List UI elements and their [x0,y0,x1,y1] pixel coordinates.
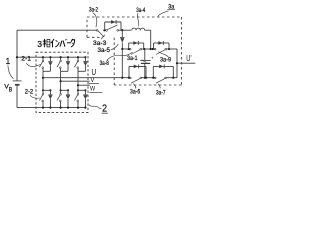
svg-text:3a-8: 3a-8 [100,60,110,67]
label 3a-9 with leader [158,52,171,64]
switch 3a-2 with bypass diode [105,20,121,31]
wire: phase leg U [42,71,44,90]
diode 3a-5 (rail to mid bus) [120,29,125,49]
svg-text:3a-6: 3a-6 [130,88,141,95]
freewheel diode of Q3 [83,57,87,71]
transistor switch Q4 (lower arm) [39,89,51,108]
switch 3a-3 (series switch in DC rail) [97,29,106,37]
label W with underline [90,86,103,93]
label 3a-3 with leader [93,35,107,48]
transistor switch Q5 (lower arm) [57,89,69,108]
wire 3a-8 node to U bus (x=122.3 vertical) [121,49,123,79]
wire: inverter top bus [16,56,86,58]
label 3a-8 with leader [100,52,133,67]
svg-text:U': U' [186,54,192,63]
switch 3a-8 with bypass diode [129,41,144,55]
battery VB positive/negative feeder (left vertical wire) [16,30,18,107]
wire: phase leg W [77,71,79,90]
dashed boundary of auxiliary block 3a [87,16,181,18]
freewheel diode of Q4 [48,90,52,108]
svg-text:2-2: 2-2 [25,89,34,96]
label 3a-6 with leader [130,84,141,96]
svg-text:3a-7: 3a-7 [156,89,166,96]
freewheel diode of Q1 [48,57,52,71]
freewheel diode of Q2 [66,57,70,71]
wire: phase V output line [60,80,90,82]
label VB [4,84,12,94]
svg-text:3a-3: 3a-3 [93,40,107,47]
freewheel diode of Q6 [83,90,87,108]
label 3a with underline and leader [158,3,175,16]
svg-text:+: + [151,56,154,61]
label 3相インバータ (3-phase inverter) [37,39,74,49]
dashed box of 3-phase inverter (2) [36,52,88,112]
switch 3a-6 with bypass diode [129,64,146,83]
label 3a-1 with leader [127,55,146,63]
label 3a-4 with leader [136,7,145,26]
transistor switch Q6 (lower arm) [74,89,86,108]
label 1 with leader [6,57,14,79]
transistor switch Q1 (upper arm) [39,56,51,71]
svg-text:3a-1: 3a-1 [127,55,138,62]
switch 3a-7 with bypass diode [153,64,173,83]
svg-text:2-1: 2-1 [21,56,31,63]
switch 3a-9 with bypass diode [154,41,169,55]
wire: right vertical to U-prime [176,49,178,78]
label 2-1 with leader [21,56,41,67]
wire: U-prime output [177,62,195,64]
label 2-2 with leader [25,89,40,99]
svg-text:3a-4: 3a-4 [136,7,145,14]
wire: bottom DC bus [17,107,85,109]
inductor 3a-4 [132,28,151,49]
capacitor 3a-1 [140,49,154,79]
battery VB [13,81,22,85]
wire: phase U output line [42,77,177,79]
wire: top DC rail [17,29,131,31]
label 3a-7 with leader [156,84,166,97]
svg-text:U: U [92,68,97,77]
svg-text:3a-2: 3a-2 [89,7,98,14]
freewheel diode of Q5 [66,90,70,108]
wire: phase W output line [77,84,90,86]
wire: phase leg V [60,71,62,90]
label 2 with leader [89,104,108,115]
junction dots on U bus [128,77,175,79]
svg-text:3a-9: 3a-9 [160,57,171,64]
svg-text:3a-5: 3a-5 [98,47,111,54]
wire: mid bus of 3a block [121,48,177,50]
label 3a-5 with leader [98,44,119,54]
transistor switch Q2 (upper arm) [57,56,69,71]
svg-text:B: B [9,86,13,93]
svg-text:1: 1 [6,57,11,66]
svg-text:3: 3 [37,39,42,49]
label V with underline [89,77,99,84]
svg-text:W: W [90,86,95,93]
label 3a-2 with leader [89,7,98,28]
transistor switch Q3 (upper arm) [74,56,86,71]
